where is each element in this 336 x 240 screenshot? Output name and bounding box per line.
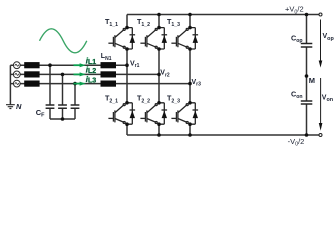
svg-text:Con: Con	[291, 90, 303, 101]
voltage arrow Von	[320, 78, 322, 124]
node bottom rail junction leg3	[188, 133, 192, 137]
node CF tap 1	[48, 63, 52, 67]
svg-text:iL2: iL2	[86, 66, 96, 76]
capacitor Con	[301, 101, 313, 104]
current arrow iL1	[74, 63, 86, 67]
svg-text:T2_3: T2_3	[167, 94, 180, 105]
svg-text:+V0/2: +V0/2	[285, 5, 304, 16]
wire leg 1	[126, 15, 128, 136]
wire bottom DC rail	[127, 134, 319, 136]
node Vr1 junction	[125, 63, 129, 67]
voltage arrow Vop	[320, 20, 322, 62]
node top rail junction leg2	[157, 13, 161, 17]
svg-text:T2_1: T2_1	[105, 94, 118, 105]
wire CF bottom bus	[50, 118, 75, 120]
node Vr3 junction	[188, 82, 192, 86]
ground N	[6, 105, 15, 109]
current arrow iL3	[74, 82, 86, 86]
capacitor CF branch 1	[49, 65, 51, 119]
wire DC-link column	[306, 15, 308, 136]
svg-text:Vop: Vop	[323, 33, 335, 42]
node CF tap 3	[73, 82, 77, 86]
wire leg 2	[158, 15, 160, 136]
transistor T2_3	[171, 101, 198, 126]
svg-text:T1_1: T1_1	[105, 17, 118, 28]
svg-text:M: M	[309, 76, 315, 85]
wire phase line 3	[20, 83, 190, 85]
wire phase line 2	[20, 73, 159, 75]
svg-text:Vr2: Vr2	[160, 70, 170, 79]
inductor LN1 phase 1	[101, 62, 117, 68]
svg-text:Vr3: Vr3	[192, 79, 202, 88]
node bottom rail junction leg2	[157, 133, 161, 137]
inductor LN1 phase 2	[101, 71, 117, 77]
terminal +VD/2	[319, 13, 322, 16]
svg-text:T1_3: T1_3	[167, 17, 180, 28]
voltage source V3	[13, 80, 20, 87]
node top rail junction column	[305, 13, 309, 17]
capacitor Cop	[301, 44, 313, 48]
transistor T1_1	[108, 26, 135, 51]
svg-text:iL3: iL3	[86, 75, 96, 85]
svg-text:LN1: LN1	[101, 53, 112, 62]
svg-text:Vr1: Vr1	[130, 60, 140, 69]
node bottom rail junction column	[305, 133, 309, 137]
voltage source V1	[13, 62, 20, 69]
resistor Z2 (grid impedance phase 2)	[24, 71, 39, 77]
svg-text:-V0/2: -V0/2	[288, 137, 305, 148]
voltage source V2	[13, 71, 20, 78]
svg-text:iL1: iL1	[86, 56, 96, 66]
node M	[305, 74, 309, 78]
svg-text:CF: CF	[36, 108, 45, 119]
node CF bus junction	[61, 117, 65, 121]
resistor Z3 (grid impedance phase 3)	[24, 81, 39, 87]
wire source bus	[10, 65, 13, 104]
transistor T1_3	[171, 26, 198, 51]
svg-text:Von: Von	[322, 94, 333, 103]
svg-text:T2_2: T2_2	[137, 94, 150, 105]
node top rail junction leg3	[188, 13, 192, 17]
transistor T1_2	[140, 26, 167, 51]
node Vr2 junction	[157, 73, 161, 77]
sine wave symbol	[40, 29, 87, 53]
capacitor CF branch 3	[74, 84, 76, 119]
inductor LN1 phase 3	[101, 81, 117, 87]
transistor T2_1	[108, 101, 135, 126]
svg-text:N: N	[16, 102, 22, 111]
transistor T2_2	[140, 101, 167, 126]
resistor Z1 (grid impedance phase 1)	[24, 62, 39, 68]
wire top DC rail	[127, 14, 319, 16]
current arrow iL2	[74, 72, 86, 76]
terminal -VD/2	[319, 134, 322, 137]
svg-text:Cop: Cop	[291, 34, 303, 45]
capacitor CF branch 2	[62, 74, 64, 119]
node CF tap 2	[61, 73, 65, 77]
wire phase line 1	[20, 64, 127, 66]
svg-text:T1_2: T1_2	[137, 17, 150, 28]
wire leg 3	[189, 15, 191, 136]
